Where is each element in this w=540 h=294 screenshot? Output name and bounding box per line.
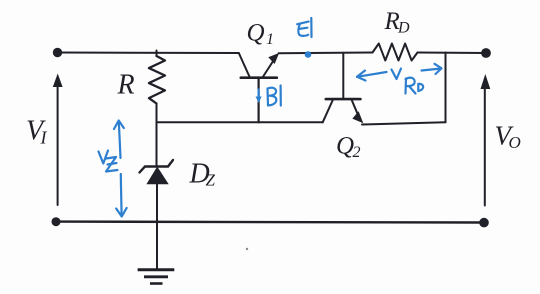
svg-text:2: 2	[353, 144, 361, 161]
svg-text:Q: Q	[247, 20, 265, 47]
svg-text:O: O	[509, 133, 521, 152]
svg-text:Q: Q	[336, 133, 354, 160]
svg-text:D: D	[397, 20, 410, 37]
svg-text:Z: Z	[206, 171, 216, 190]
svg-text:R: R	[117, 69, 135, 100]
svg-text:1: 1	[266, 31, 274, 48]
svg-text:I: I	[40, 128, 48, 148]
